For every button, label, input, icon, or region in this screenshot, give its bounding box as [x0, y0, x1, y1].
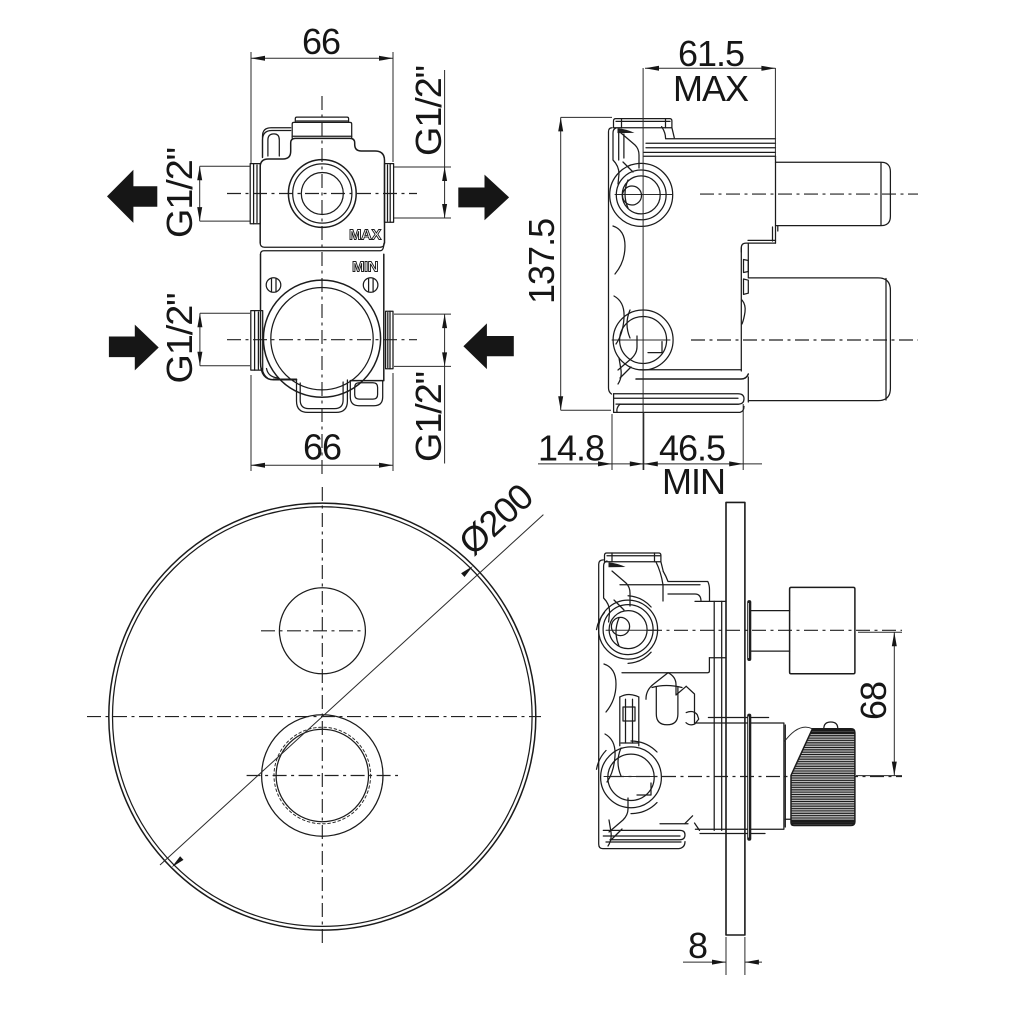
- lower spigot: [749, 278, 891, 401]
- svg-text:MAX: MAX: [349, 227, 381, 244]
- dimension 14.8 / 46.5 MIN chain: [538, 404, 762, 502]
- volume knob centerline: [247, 775, 398, 777]
- volume knob knurled body: [789, 729, 856, 826]
- upper port circle outer: [288, 160, 356, 228]
- svg-text:14.8: 14.8: [538, 428, 604, 469]
- left fixing screw: [266, 278, 281, 293]
- diverter knob boss on plate: [747, 600, 751, 661]
- G1/2 label left bottom: [159, 293, 250, 383]
- horizontal centerline lower spigot: [691, 339, 918, 341]
- diameter leader line: [160, 515, 543, 865]
- lower boss circle outer: [601, 747, 662, 808]
- transfer shoulder: [686, 686, 699, 725]
- dimension 137.5: [521, 117, 612, 410]
- G1/2 label right top: [394, 66, 451, 218]
- flow arrow right top (outward): [458, 175, 509, 221]
- upper boss bore: [609, 611, 647, 649]
- upper boss circle ring: [616, 170, 666, 220]
- volume knob knurl circle: [274, 727, 371, 824]
- right fixing screw: [363, 278, 378, 293]
- trim plate inner circle: [112, 507, 532, 927]
- left bottom port: [251, 311, 263, 371]
- upper boss circle ring: [603, 605, 653, 655]
- svg-text:66: 66: [303, 427, 341, 468]
- svg-text:MAX: MAX: [673, 68, 749, 109]
- right bottom port: [386, 311, 393, 369]
- svg-text:G1/2": G1/2": [408, 66, 449, 156]
- top inlet port neck: [292, 122, 352, 138]
- cap corner wedge: [618, 128, 635, 133]
- outlet flange column MIN plane: [741, 243, 748, 402]
- volume knob dome: [824, 722, 838, 729]
- bracket top cap: [605, 553, 664, 572]
- vertical centerline: [321, 96, 323, 478]
- svg-text:66: 66: [302, 21, 340, 62]
- body top ribs: [644, 127, 776, 157]
- upper port circle inner: [301, 173, 343, 215]
- horizontal centerline upper spigot: [700, 193, 918, 195]
- svg-text:137.5: 137.5: [521, 219, 562, 304]
- wall plate: [726, 502, 745, 935]
- dimension 68: [853, 632, 902, 775]
- flow arrow left bottom (inward): [109, 325, 159, 371]
- upper boss bore: [622, 176, 660, 214]
- lower valve body: [261, 254, 384, 380]
- step below upper spigot: [773, 226, 778, 244]
- mid casting stem: [620, 695, 639, 746]
- trim plate outer circle: [109, 503, 536, 930]
- top cap: [614, 119, 675, 138]
- body right edge upper: [775, 156, 777, 162]
- diverter knob centerline: [261, 630, 365, 632]
- lower boss keyway: [648, 342, 662, 353]
- upper boss flange arc: [597, 596, 652, 664]
- dimension 61.5 MAX: [645, 33, 775, 160]
- bottom left hook wedge: [262, 369, 278, 379]
- horizontal centerline lower ports: [227, 339, 417, 341]
- svg-text:MIN: MIN: [352, 259, 378, 276]
- upper boss circle outer: [599, 600, 658, 659]
- lower boss flange arc: [597, 741, 658, 814]
- diverter knob circle: [279, 588, 365, 674]
- lower boss circle ring: [620, 317, 667, 364]
- G1/2 label left top: [159, 148, 250, 238]
- vertical centerline: [321, 487, 323, 946]
- right top inlet port: [385, 164, 394, 223]
- diverter knob shaft: [751, 611, 789, 652]
- bottom right outlet boss: [350, 381, 382, 406]
- upper body block: [620, 562, 726, 830]
- centerline solid through upper boss: [615, 194, 672, 196]
- wall reference plane line MAX: [642, 68, 644, 470]
- lower boss circle outer: [613, 310, 673, 370]
- volume collar on plate: [747, 714, 751, 841]
- horizontal centerline: [87, 716, 541, 718]
- leader arrowhead bottom: [172, 856, 184, 867]
- horizontal centerline upper ports: [227, 193, 417, 195]
- left top inlet port: [250, 164, 260, 224]
- flow arrow left top (outward): [107, 170, 157, 223]
- upper body split lines: [260, 243, 384, 254]
- lower boss circle ring: [608, 754, 654, 800]
- flow arrow right bottom (inward): [463, 323, 513, 369]
- upper spigot: [776, 162, 891, 225]
- bottom foot: [614, 394, 744, 413]
- cone silhouette curve: [784, 727, 812, 742]
- dimension 8: [683, 925, 762, 975]
- svg-text:G1/2": G1/2": [159, 148, 200, 238]
- upper boss small circle: [623, 186, 642, 205]
- leader arrowhead top: [461, 566, 473, 577]
- diverter knob body: [790, 587, 855, 673]
- upper valve body: [260, 138, 384, 243]
- volume knob outer circle: [262, 715, 383, 836]
- cap corner wedge v4: [609, 562, 626, 567]
- svg-text:G1/2": G1/2": [408, 372, 449, 462]
- svg-text:G1/2": G1/2": [159, 293, 200, 383]
- top inlet port cap: [295, 117, 348, 122]
- upper port circle middle: [293, 164, 352, 223]
- lower cartridge circle outer: [263, 280, 380, 397]
- svg-text:8: 8: [688, 925, 707, 966]
- G1/2 label right bottom: [394, 314, 451, 463]
- dimension 66 top: [251, 21, 393, 163]
- body bottom edge: [636, 370, 748, 379]
- bottom foot: [603, 830, 685, 848]
- dimension 66 bottom: [251, 373, 393, 471]
- svg-text:68: 68: [853, 682, 894, 720]
- mounting tab top-left: [263, 128, 291, 158]
- upper boss circle outer: [610, 163, 673, 226]
- upper boss small circle: [611, 617, 629, 635]
- svg-text:MIN: MIN: [662, 461, 725, 502]
- mounting bracket column: [609, 128, 640, 394]
- bottom center tab: [297, 379, 348, 412]
- shelf to flange: [741, 240, 775, 252]
- centerline volume knob: [610, 776, 902, 778]
- lower boss keyway: [637, 783, 651, 795]
- centerline diverter knob: [648, 629, 902, 631]
- body bottom chamfer: [660, 816, 700, 831]
- centerline solid through upper boss: [606, 629, 658, 631]
- mid casting U cutout: [652, 686, 682, 725]
- centerline solid through lower boss: [612, 339, 670, 341]
- volume sleeve through plate: [695, 718, 790, 834]
- valve bracket column: [599, 560, 630, 849]
- volume knob inner circle: [276, 729, 368, 821]
- lower cartridge circle inner: [271, 288, 373, 390]
- centerline solid through lower boss: [604, 776, 656, 778]
